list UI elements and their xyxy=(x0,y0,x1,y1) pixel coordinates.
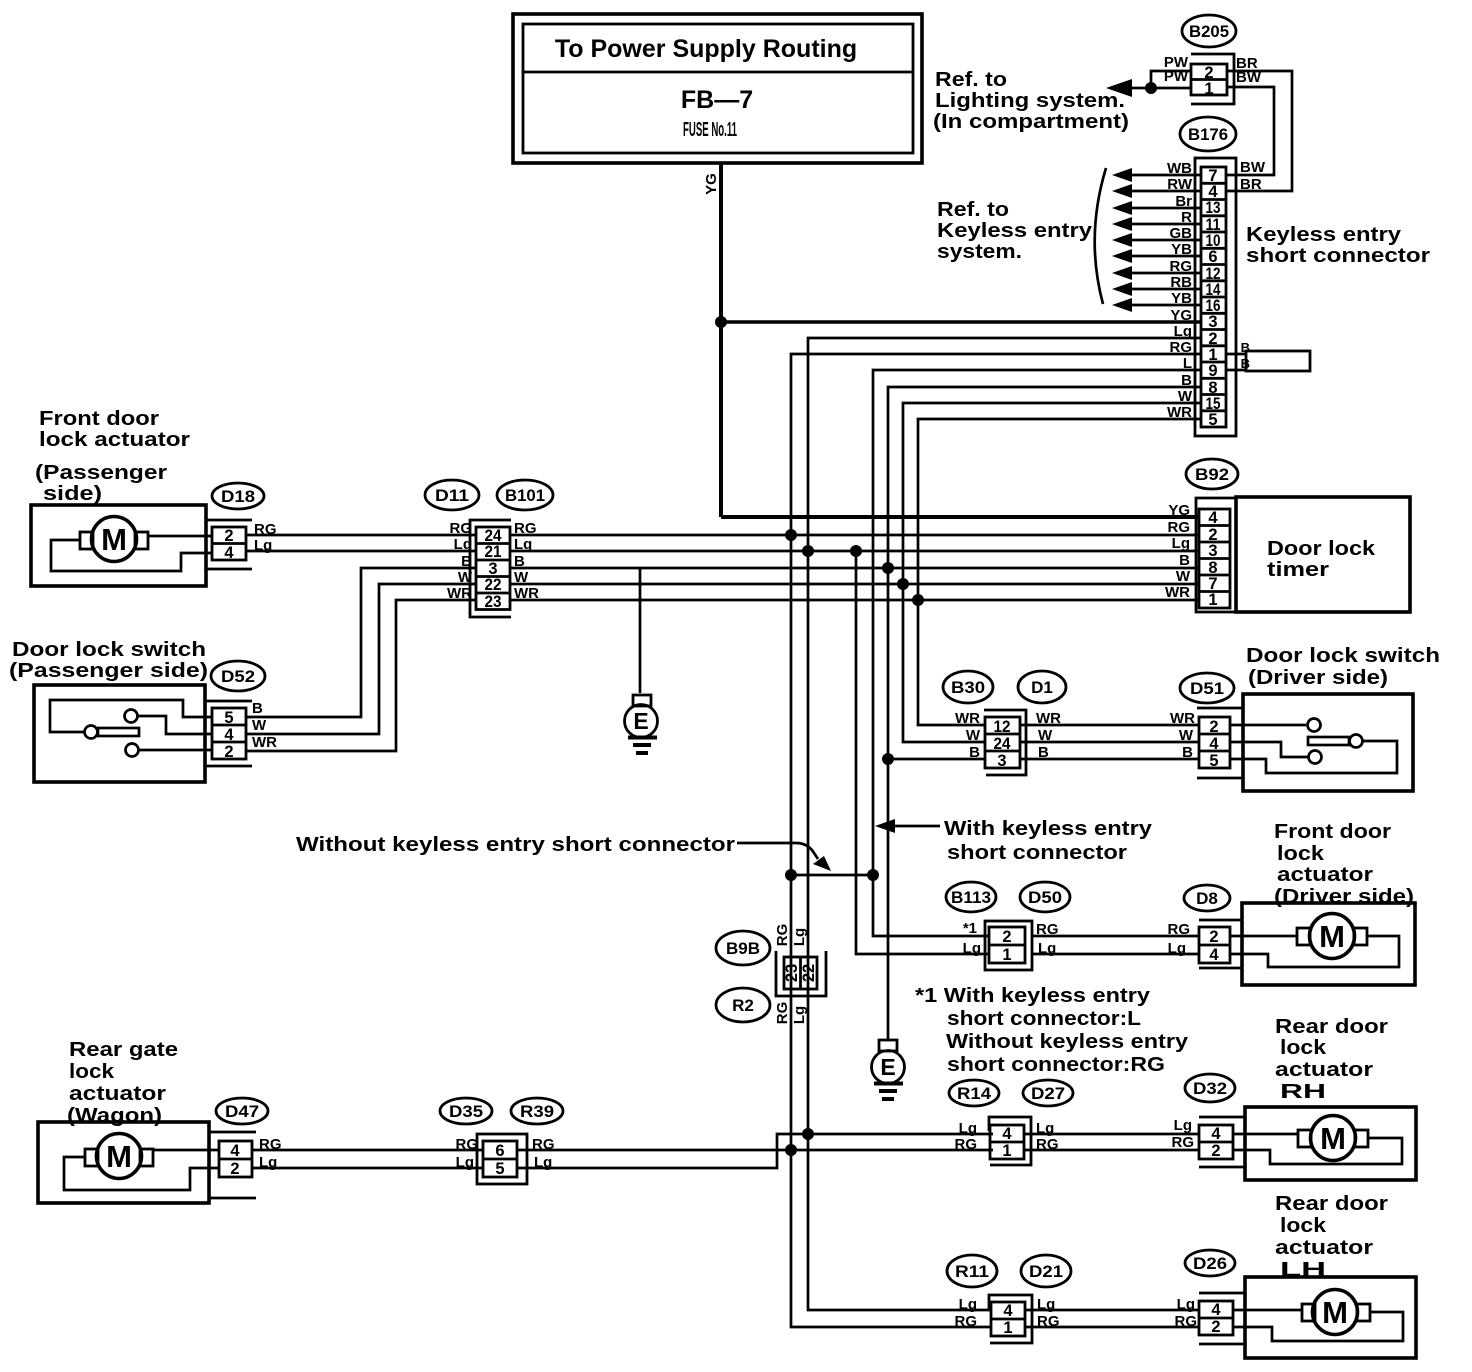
with keyless arrow xyxy=(875,819,940,833)
svg-text:RW: RW xyxy=(1167,176,1193,193)
svg-text:4: 4 xyxy=(1208,509,1218,527)
svg-text:RH: RH xyxy=(1280,1080,1326,1103)
wire YG to B176 pin 3 xyxy=(721,320,1201,324)
svg-text:5: 5 xyxy=(1209,752,1218,770)
svg-text:5: 5 xyxy=(224,709,233,727)
svg-text:RG: RG xyxy=(1037,1313,1060,1330)
svg-text:lock: lock xyxy=(1280,1214,1327,1237)
wire RG D47 to D35 xyxy=(252,1149,483,1152)
svg-text:LH: LH xyxy=(1280,1258,1326,1281)
svg-text:lock: lock xyxy=(69,1060,115,1083)
svg-text:D47: D47 xyxy=(225,1102,259,1121)
wire B B101 to B92 xyxy=(510,567,1199,570)
svg-text:Door lock switch: Door lock switch xyxy=(12,638,206,661)
svg-text:YB: YB xyxy=(1171,290,1192,307)
svg-text:1: 1 xyxy=(1002,946,1011,964)
svg-text:WR: WR xyxy=(514,585,539,602)
svg-text:D51: D51 xyxy=(1190,679,1224,698)
svg-text:Lg: Lg xyxy=(1174,1117,1192,1134)
svg-text:RG: RG xyxy=(774,924,791,947)
svg-text:2: 2 xyxy=(224,743,233,761)
junction PW xyxy=(1145,82,1157,94)
svg-text:D11: D11 xyxy=(435,486,469,505)
svg-text:Rear gate: Rear gate xyxy=(69,1038,178,1061)
svg-text:2: 2 xyxy=(1209,928,1218,946)
svg-text:lock: lock xyxy=(1277,842,1325,865)
door lock timer box xyxy=(1236,497,1410,612)
svg-text:RG: RG xyxy=(955,1136,978,1153)
svg-text:R2: R2 xyxy=(732,996,754,1015)
arrow to lighting system xyxy=(1106,79,1132,97)
svg-text:21: 21 xyxy=(485,543,502,561)
svg-text:side): side) xyxy=(43,482,102,505)
svg-text:BW: BW xyxy=(1240,159,1266,176)
svg-text:Br: Br xyxy=(1175,193,1192,210)
connector B9B R2 xyxy=(716,924,826,1025)
svg-text:B: B xyxy=(252,700,263,717)
svg-text:(Driver side): (Driver side) xyxy=(1248,666,1388,689)
svg-text:D1: D1 xyxy=(1031,678,1053,697)
svg-text:system.: system. xyxy=(937,240,1022,263)
svg-text:Lg: Lg xyxy=(456,1154,474,1171)
svg-text:Lighting system.: Lighting system. xyxy=(935,89,1125,112)
connector B92 xyxy=(1165,459,1238,612)
svg-text:23: 23 xyxy=(783,964,801,982)
ground E2 xyxy=(872,1040,905,1099)
B176 left wire labels xyxy=(1167,160,1193,421)
svg-text:B205: B205 xyxy=(1189,22,1229,41)
svg-text:B: B xyxy=(461,553,472,570)
door lock switch driver side xyxy=(1230,694,1413,791)
svg-text:D18: D18 xyxy=(221,487,255,506)
svg-text:6: 6 xyxy=(495,1142,504,1160)
svg-text:M: M xyxy=(101,522,127,557)
svg-text:4: 4 xyxy=(1002,1125,1012,1143)
svg-text:M: M xyxy=(1322,1295,1348,1330)
svg-text:Lg: Lg xyxy=(259,1154,277,1171)
svg-text:B: B xyxy=(1182,744,1193,761)
B176 right BW BR labels xyxy=(1240,159,1266,193)
svg-text:BW: BW xyxy=(1236,69,1262,86)
svg-text:short connector: short connector xyxy=(947,841,1127,864)
svg-text:2: 2 xyxy=(230,1160,239,1178)
wire Lg D21 to D26 xyxy=(1025,1309,1199,1312)
svg-text:M: M xyxy=(1319,919,1345,954)
svg-text:Ref. to: Ref. to xyxy=(937,198,1009,221)
svg-text:1: 1 xyxy=(1003,1319,1012,1337)
text rear door lock actuator LH xyxy=(1275,1192,1388,1281)
svg-text:RG: RG xyxy=(1036,921,1059,938)
svg-text:WR: WR xyxy=(1036,710,1061,727)
svg-text:RG: RG xyxy=(259,1136,282,1153)
svg-text:4: 4 xyxy=(1003,1302,1013,1320)
motor M xyxy=(92,517,137,562)
junction YG node xyxy=(715,316,727,328)
svg-text:Without keyless entry: Without keyless entry xyxy=(946,1030,1189,1053)
svg-text:short connector:L: short connector:L xyxy=(947,1007,1141,1030)
svg-text:timer: timer xyxy=(1267,558,1329,581)
svg-text:R14: R14 xyxy=(957,1084,992,1103)
connector D51 xyxy=(1170,673,1243,778)
svg-text:Front door: Front door xyxy=(1274,820,1391,843)
wire B B176 pin 8 to ground E2 xyxy=(888,387,1201,1040)
svg-text:Door lock: Door lock xyxy=(1267,537,1376,560)
svg-text:D8: D8 xyxy=(1196,889,1218,908)
svg-text:YB: YB xyxy=(1171,241,1192,258)
connector B205 xyxy=(1164,15,1262,104)
svg-text:B30: B30 xyxy=(951,678,985,697)
svg-text:Lg: Lg xyxy=(1172,535,1190,552)
svg-text:WR: WR xyxy=(252,734,277,751)
svg-text:Keyless entry: Keyless entry xyxy=(937,219,1093,242)
svg-text:Lg: Lg xyxy=(1037,1296,1055,1313)
svg-text:2: 2 xyxy=(1211,1318,1220,1336)
svg-text:D35: D35 xyxy=(449,1102,483,1121)
wire PW B205 pin 1 to lighting system arrow xyxy=(1110,87,1191,90)
text with keyless entry short connector xyxy=(944,817,1153,864)
svg-text:23: 23 xyxy=(485,593,502,611)
svg-text:22: 22 xyxy=(485,576,502,594)
svg-text:3: 3 xyxy=(1208,313,1217,331)
power supply box FB-7 xyxy=(513,14,922,163)
svg-text:E: E xyxy=(880,1054,895,1080)
svg-text:D32: D32 xyxy=(1193,1079,1227,1098)
wire WR D52 to D11 xyxy=(246,600,476,751)
switch pivot xyxy=(85,726,98,739)
svg-text:RG: RG xyxy=(532,1136,555,1153)
junction W row xyxy=(897,578,909,590)
svg-text:Lg: Lg xyxy=(1174,323,1192,340)
svg-text:actuator: actuator xyxy=(1275,1058,1373,1081)
wire Lg D47 to D35 xyxy=(252,1167,483,1170)
svg-text:Lg: Lg xyxy=(454,536,472,553)
svg-text:24: 24 xyxy=(994,735,1012,753)
svg-text:1: 1 xyxy=(1002,1142,1011,1160)
wire bridge without keyless short connector xyxy=(791,874,873,877)
svg-text:Lg: Lg xyxy=(1036,1120,1054,1137)
svg-text:RG: RG xyxy=(774,1002,791,1025)
svg-text:WR: WR xyxy=(1170,710,1195,727)
svg-text:PW: PW xyxy=(1164,68,1189,85)
wire Lg B101 to B92 xyxy=(510,550,1199,553)
svg-text:(Passenger: (Passenger xyxy=(35,461,167,484)
svg-text:WR: WR xyxy=(447,585,472,602)
svg-text:Rear door: Rear door xyxy=(1275,1015,1388,1038)
wire RG D27 to D32 xyxy=(1024,1149,1199,1152)
contact to W xyxy=(125,710,138,723)
svg-text:WR: WR xyxy=(1165,584,1190,601)
svg-text:Lg: Lg xyxy=(1177,1296,1195,1313)
text keyless entry short connector xyxy=(1246,223,1430,267)
wire W B176 pin 15 to B30 pin 24 xyxy=(903,403,1201,742)
svg-text:Lg: Lg xyxy=(791,1006,808,1024)
svg-text:1: 1 xyxy=(1208,591,1217,609)
wire YG vertical to B92 xyxy=(719,322,723,517)
svg-text:RG: RG xyxy=(1175,1313,1198,1330)
connector D26 xyxy=(1175,1250,1246,1344)
svg-text:Lg: Lg xyxy=(1038,940,1056,957)
contact WR xyxy=(1308,719,1321,732)
svg-text:RG: RG xyxy=(1172,1134,1195,1151)
wire RG D50 to D8 xyxy=(1032,935,1199,938)
svg-text:actuator: actuator xyxy=(1277,863,1373,886)
text front door lock actuator passenger xyxy=(35,407,190,505)
wire Lg D27 to D32 xyxy=(1024,1133,1199,1136)
text note 1 xyxy=(915,984,1189,1076)
connector D47 xyxy=(209,1098,282,1198)
contact to WR xyxy=(126,744,139,757)
wire RG B101 to B92 xyxy=(510,534,1199,537)
text rear gate lock actuator wagon xyxy=(67,1038,178,1127)
connector D8 xyxy=(1168,885,1243,968)
svg-text:4: 4 xyxy=(224,544,234,562)
wire PW B205 pin 2 xyxy=(1151,71,1191,88)
svg-text:3: 3 xyxy=(997,752,1006,770)
connector B30 D1 xyxy=(943,671,1066,775)
wire B to B30 pin 3 xyxy=(888,758,985,761)
svg-text:B101: B101 xyxy=(505,486,545,505)
svg-text:BR: BR xyxy=(1240,176,1262,193)
svg-text:M: M xyxy=(1320,1121,1346,1156)
svg-text:WR: WR xyxy=(955,710,980,727)
junction B row xyxy=(882,562,894,574)
wire L B176 pin 9 to B113 pin 2 xyxy=(873,370,1201,936)
front door lock actuator driver side xyxy=(1230,903,1415,985)
switch lever xyxy=(98,728,139,736)
svg-text:B: B xyxy=(1241,340,1250,355)
svg-text:FB—7: FB—7 xyxy=(681,86,753,114)
wire WR D1 to D51 xyxy=(1020,724,1199,727)
wire Lg D18 to D11 xyxy=(246,550,476,553)
svg-text:WB: WB xyxy=(1167,160,1192,177)
svg-text:FUSE No.11: FUSE No.11 xyxy=(683,119,737,141)
junction B to B30 xyxy=(882,753,894,765)
svg-text:*1 With keyless entry: *1 With keyless entry xyxy=(915,984,1151,1007)
junction RG row xyxy=(785,529,797,541)
svg-text:13: 13 xyxy=(1206,199,1221,217)
svg-text:W: W xyxy=(966,727,981,744)
svg-text:lock actuator: lock actuator xyxy=(39,428,190,451)
svg-text:(Wagon): (Wagon) xyxy=(67,1104,162,1127)
svg-text:5: 5 xyxy=(495,1160,504,1178)
svg-text:Lg: Lg xyxy=(959,1120,977,1137)
svg-text:B: B xyxy=(1181,372,1192,389)
svg-text:6: 6 xyxy=(1208,248,1217,266)
svg-text:Keyless entry: Keyless entry xyxy=(1246,223,1402,246)
svg-text:22: 22 xyxy=(800,964,818,982)
svg-text:D21: D21 xyxy=(1029,1262,1063,1281)
connector D35 R39 xyxy=(440,1098,563,1184)
ground E1 xyxy=(625,695,658,753)
svg-text:9: 9 xyxy=(1208,362,1217,380)
text ref to keyless entry system xyxy=(937,198,1093,263)
wire BR B205 pin 2 to B176 pin 4 xyxy=(1226,71,1292,191)
svg-text:4: 4 xyxy=(230,1142,240,1160)
svg-text:Without keyless entry short co: Without keyless entry short connector xyxy=(296,833,735,856)
wire W D1 to D51 xyxy=(1020,741,1199,744)
svg-text:short connector:RG: short connector:RG xyxy=(947,1053,1165,1076)
wire Lg B176 pin 2 main vertical xyxy=(808,338,1201,1310)
svg-text:B: B xyxy=(969,744,980,761)
svg-text:RG: RG xyxy=(1168,519,1191,536)
connector D11 B101 xyxy=(425,480,553,617)
connector D32 xyxy=(1172,1074,1246,1167)
rear door lock actuator RH xyxy=(1233,1107,1416,1180)
text ref to lighting system xyxy=(933,68,1129,133)
svg-text:W: W xyxy=(514,569,529,586)
svg-text:2: 2 xyxy=(1211,1142,1220,1160)
svg-text:actuator: actuator xyxy=(69,1082,166,1105)
svg-text:4: 4 xyxy=(1211,1301,1221,1319)
svg-text:2: 2 xyxy=(224,527,233,545)
svg-text:4: 4 xyxy=(224,726,234,744)
svg-text:5: 5 xyxy=(1208,411,1217,429)
svg-text:12: 12 xyxy=(994,718,1011,736)
svg-text:R11: R11 xyxy=(955,1262,989,1281)
svg-text:W: W xyxy=(252,717,267,734)
svg-text:lock: lock xyxy=(1280,1036,1327,1059)
svg-text:D50: D50 xyxy=(1028,888,1062,907)
svg-text:R39: R39 xyxy=(520,1102,554,1121)
connector B176 keyless entry xyxy=(1180,117,1236,436)
text door lock switch driver xyxy=(1246,644,1440,689)
svg-text:B9B: B9B xyxy=(726,939,760,958)
svg-text:(Driver side): (Driver side) xyxy=(1274,885,1414,908)
text door lock switch passenger xyxy=(9,638,208,682)
svg-text:D27: D27 xyxy=(1031,1084,1065,1103)
svg-text:4: 4 xyxy=(1209,735,1219,753)
without keyless arrow xyxy=(737,843,831,871)
svg-text:B: B xyxy=(1241,356,1250,371)
svg-text:GB: GB xyxy=(1170,225,1193,242)
svg-text:Ref. to: Ref. to xyxy=(935,68,1007,91)
svg-text:B: B xyxy=(1038,744,1049,761)
svg-text:RG: RG xyxy=(1170,339,1193,356)
svg-text:Lg: Lg xyxy=(254,537,272,554)
wire BW B205 pin 1 to B176 pin 7 xyxy=(1226,87,1274,175)
switch pivot xyxy=(1350,735,1363,748)
wire W B101 to B92 xyxy=(510,583,1199,586)
svg-text:RG: RG xyxy=(514,520,537,537)
svg-text:WR: WR xyxy=(1167,404,1192,421)
connector R14 D27 xyxy=(949,1080,1073,1165)
svg-text:W: W xyxy=(1179,727,1194,744)
wire Lg branch to B113 pin 1 xyxy=(856,551,989,954)
rear door lock actuator LH xyxy=(1233,1277,1416,1358)
keyless entry arrows to ref xyxy=(1112,168,1201,312)
connector D52 xyxy=(206,661,277,766)
svg-text:(In compartment): (In compartment) xyxy=(933,110,1129,133)
junction Lg branch xyxy=(850,545,862,557)
wire B branch to ground E1 xyxy=(639,568,642,693)
svg-text:RG: RG xyxy=(1036,1136,1059,1153)
svg-text:4: 4 xyxy=(1211,1125,1221,1143)
svg-text:Lg: Lg xyxy=(791,928,808,946)
svg-text:Lg: Lg xyxy=(963,940,981,957)
wire RG R39 to R14 xyxy=(517,1149,993,1152)
connector D18 xyxy=(206,483,277,569)
junction RG bottom xyxy=(785,1144,797,1156)
wire WR B176 pin 5 to B30 pin 12 xyxy=(918,419,1201,725)
svg-text:Lg: Lg xyxy=(959,1296,977,1313)
svg-text:Lg: Lg xyxy=(534,1154,552,1171)
junction bridge right xyxy=(867,869,879,881)
contact W xyxy=(1309,751,1322,764)
svg-text:1: 1 xyxy=(1204,80,1213,98)
wire Lg D50 to D8 xyxy=(1032,953,1199,956)
svg-text:B92: B92 xyxy=(1195,465,1229,484)
wire YG from fuse box xyxy=(719,163,723,322)
svg-text:B: B xyxy=(1179,552,1190,569)
svg-text:RG: RG xyxy=(456,1136,479,1153)
svg-text:YG: YG xyxy=(703,173,720,195)
svg-text:D52: D52 xyxy=(221,667,255,686)
svg-text:W: W xyxy=(458,569,473,586)
svg-text:B176: B176 xyxy=(1188,125,1228,144)
svg-text:RG: RG xyxy=(450,520,473,537)
svg-text:With keyless entry: With keyless entry xyxy=(944,817,1153,840)
wire RG D21 to D26 xyxy=(1025,1326,1199,1329)
svg-text:2: 2 xyxy=(1209,718,1218,736)
brace arc keyless entry system xyxy=(1095,168,1106,304)
svg-text:B113: B113 xyxy=(951,888,991,907)
wire RG D18 to D11 xyxy=(246,534,476,537)
svg-text:W: W xyxy=(1176,568,1191,585)
svg-text:W: W xyxy=(1178,388,1193,405)
svg-text:short connector: short connector xyxy=(1246,244,1430,267)
svg-text:Door lock switch: Door lock switch xyxy=(1246,644,1440,667)
svg-text:Rear door: Rear door xyxy=(1275,1192,1388,1215)
svg-text:RG: RG xyxy=(1170,258,1193,275)
svg-text:R: R xyxy=(1181,209,1192,226)
svg-text:L: L xyxy=(1183,355,1192,372)
text rear door lock actuator RH xyxy=(1275,1015,1388,1103)
svg-text:RB: RB xyxy=(1170,274,1192,291)
svg-text:Lg: Lg xyxy=(514,536,532,553)
svg-text:B: B xyxy=(514,553,525,570)
wire Lg R39 to R14 xyxy=(517,1134,993,1168)
wire B D52 to D11 xyxy=(246,568,476,717)
svg-text:2: 2 xyxy=(1002,928,1011,946)
svg-text:Lg: Lg xyxy=(1168,940,1186,957)
svg-text:W: W xyxy=(1038,727,1053,744)
text front door lock actuator driver xyxy=(1274,820,1414,908)
junction bridge left xyxy=(785,869,797,881)
svg-text:*1: *1 xyxy=(963,920,977,937)
svg-text:E: E xyxy=(633,708,648,734)
svg-text:RG: RG xyxy=(955,1313,978,1330)
svg-text:3: 3 xyxy=(1208,542,1217,560)
svg-text:RG: RG xyxy=(254,521,277,538)
svg-text:Front door: Front door xyxy=(39,407,159,430)
junction Lg bottom xyxy=(802,1128,814,1140)
svg-text:actuator: actuator xyxy=(1275,1236,1373,1259)
wire RG B176 pin 1 main vertical xyxy=(791,354,1201,1327)
door lock switch passenger side xyxy=(34,685,212,782)
wire B D1 to D51 xyxy=(1020,758,1199,761)
junction WR row xyxy=(912,594,924,606)
svg-text:To Power Supply Routing: To Power Supply Routing xyxy=(555,35,857,63)
junction Lg row xyxy=(802,545,814,557)
wire YG to B92 pin 4 xyxy=(721,515,1199,519)
keyless entry short connector bar xyxy=(1226,340,1310,371)
wire W D52 to D11 xyxy=(246,584,476,734)
svg-text:YG: YG xyxy=(1170,307,1192,324)
svg-text:M: M xyxy=(106,1139,132,1174)
wire WR B101 to B92 xyxy=(510,599,1199,602)
svg-text:RG: RG xyxy=(1168,921,1191,938)
switch lever xyxy=(1308,737,1349,745)
